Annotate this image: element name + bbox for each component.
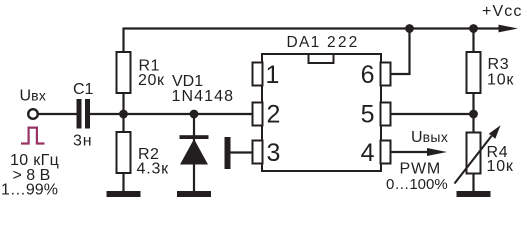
node junction pin6/Vcc rail bbox=[405, 24, 414, 33]
svg-text:222: 222 bbox=[327, 34, 359, 51]
svg-text:DA1: DA1 bbox=[287, 34, 321, 51]
pin 5 bbox=[361, 100, 391, 128]
resistor R2 4.3к bbox=[117, 132, 170, 178]
resistor R1 20к bbox=[117, 52, 165, 93]
node junction diode/input wire bbox=[190, 110, 199, 119]
svg-text:1: 1 bbox=[266, 61, 280, 89]
ground under R2 bbox=[107, 191, 141, 197]
ground at pin 3 (side bar) bbox=[225, 137, 231, 169]
pin 4 bbox=[361, 139, 391, 167]
svg-text:10к: 10к bbox=[487, 158, 514, 175]
node junction C1/R1/R2 bbox=[119, 110, 128, 119]
svg-text:1N4148: 1N4148 bbox=[172, 88, 235, 105]
resistor R3 10к bbox=[467, 52, 515, 93]
wire R2 bottom to ground bbox=[122, 173, 124, 191]
capacitor C1 bbox=[73, 81, 94, 150]
wire input terminal to C1 bbox=[39, 113, 77, 115]
+Vcc arrow bbox=[482, 3, 522, 32]
wire top rail corner down to R1 bbox=[122, 28, 124, 53]
pulse waveform symbol bbox=[21, 128, 45, 144]
wire Vcc top rail bbox=[124, 27, 500, 29]
svg-text:6: 6 bbox=[361, 61, 375, 89]
output arrow Uвых / PWM bbox=[386, 129, 448, 193]
wire pin 3 to side ground bbox=[231, 151, 254, 153]
ground under VD1 bbox=[177, 191, 211, 197]
ground under R4 bbox=[457, 191, 491, 197]
resistor R4 10к (variable) bbox=[455, 125, 514, 183]
svg-text:3н: 3н bbox=[73, 133, 92, 150]
svg-text:20к: 20к bbox=[138, 72, 165, 89]
wire C1 to pin 2 of DA1 bbox=[90, 113, 253, 115]
svg-text:PWM: PWM bbox=[400, 160, 442, 177]
node junction R3/Vcc rail bbox=[469, 24, 478, 33]
pin 3 bbox=[253, 139, 281, 167]
node junction R3/R4/pin5 bbox=[469, 110, 478, 119]
diode VD1 1N4148 bbox=[172, 73, 235, 165]
svg-text:4: 4 bbox=[361, 139, 375, 167]
svg-text:4.3к: 4.3к bbox=[137, 161, 170, 178]
svg-text:+Vcc: +Vcc bbox=[482, 3, 522, 20]
wire junction to R4 top bbox=[472, 114, 474, 133]
svg-text:2: 2 bbox=[267, 100, 281, 128]
input terminal Uвх bbox=[20, 88, 47, 119]
wire Vcc rail down to R3 bbox=[472, 29, 474, 53]
wire junction to R2 top bbox=[122, 114, 124, 132]
svg-text:10к: 10к bbox=[487, 72, 514, 89]
svg-text:5: 5 bbox=[361, 100, 375, 128]
wire pin 4 output line bbox=[390, 151, 430, 153]
pin 6 bbox=[361, 61, 391, 89]
wire R1 bottom to junction bbox=[122, 93, 124, 114]
pin 2 bbox=[253, 100, 281, 128]
wire R4 bottom to ground bbox=[472, 174, 474, 192]
wire pin 5 to R3/R4 junction bbox=[390, 113, 474, 115]
IC DA1 222 body bbox=[262, 34, 381, 171]
svg-text:3: 3 bbox=[267, 139, 281, 167]
svg-text:1…99%: 1…99% bbox=[1, 182, 58, 199]
wire pin 6 up to Vcc rail bbox=[390, 29, 410, 75]
pin 1 bbox=[253, 61, 280, 89]
svg-text:C1: C1 bbox=[73, 81, 94, 98]
wire R3 bottom to junction bbox=[472, 93, 474, 114]
svg-text:Uвых: Uвых bbox=[411, 129, 448, 146]
svg-text:Uвх: Uвх bbox=[20, 88, 47, 105]
svg-text:R3: R3 bbox=[488, 56, 510, 73]
svg-text:0…100%: 0…100% bbox=[386, 176, 448, 193]
wire diode column VD1 bbox=[193, 114, 195, 191]
